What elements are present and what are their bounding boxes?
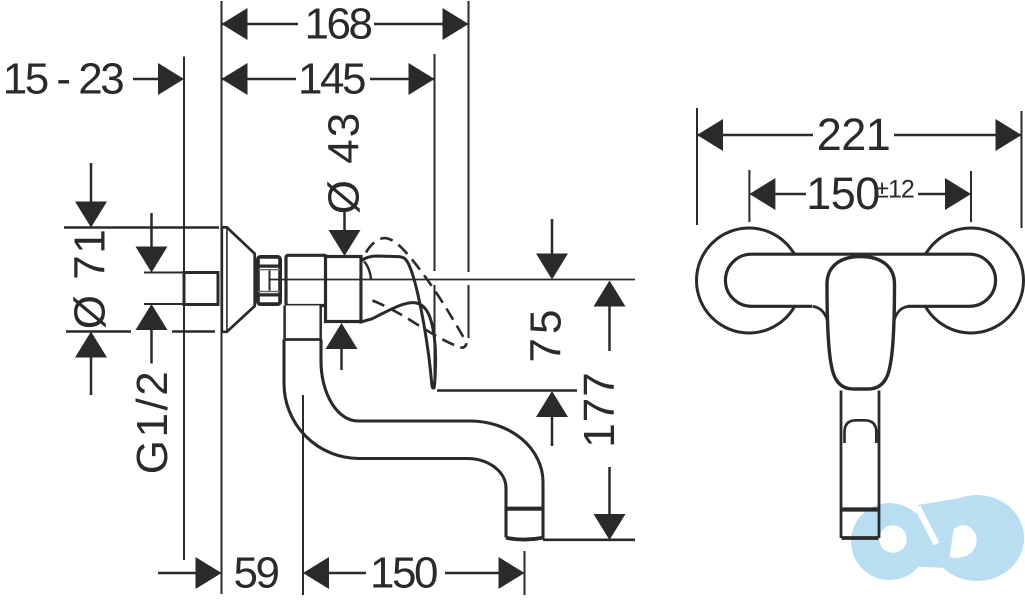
lever handle dashed upper [366,238,466,348]
spout S-tube inner edge [321,340,543,539]
handle pill front [827,257,895,390]
dim 221 line [697,134,813,137]
svg-text:Ø 71: Ø 71 [66,228,115,329]
escutcheon cone [222,227,255,331]
svg-text:221: 221 [817,109,891,160]
lever neck inner arc [364,262,371,280]
dim 221 arrows [697,119,1022,151]
svg-text:145: 145 [298,55,365,104]
svg-text:177: 177 [575,371,624,447]
spout bend arch front [845,420,877,443]
spout tube front right edge [878,391,881,539]
dim 168 arrows [222,8,469,40]
dim 150 bottom line [329,572,366,575]
svg-text:168: 168 [305,0,372,49]
union nut [258,257,280,304]
watermark right loop [930,495,1024,581]
watermark gap cut [915,506,940,546]
dim 150 bottom arrows [303,557,525,589]
G1/2 bottom arrow [136,304,168,330]
wall line outer [221,1,223,594]
lever handle dashed lower [373,301,461,348]
escutcheon base plate edge [226,227,228,331]
dim O43 top arrow [343,211,346,231]
spout bottom face [506,538,543,540]
wall line inner [183,57,185,561]
escutcheon circle right [919,228,1024,333]
spout aerator line [505,507,545,511]
dim 150+-12 line [775,193,806,196]
supply stub square G1/2 [184,273,218,305]
svg-text:15 - 23: 15 - 23 [3,55,124,104]
svg-text:59: 59 [234,549,279,598]
dim O71 top arrow [90,163,93,203]
svg-text:G1/2: G1/2 [128,369,177,474]
escutcheon circle left [697,228,802,333]
lever handle solid [361,256,436,388]
nut ridge bottom [257,293,282,296]
dim 145 arrows [222,63,435,95]
ext line spout axis [302,395,304,595]
lever tip reference line [437,389,577,392]
dim O43 bottom arrow [326,323,358,349]
svg-text:±12: ±12 [875,176,914,204]
dim 150+-12 ext left [748,170,750,222]
dim O71 bottom line [66,330,131,333]
dim 145 line [222,78,435,81]
ext line 145 [434,54,436,271]
svg-text:75: 75 [522,306,571,363]
svg-text:150: 150 [370,549,437,598]
nut ridge top thin [258,269,280,271]
dim 75 bottom arrow [536,391,568,417]
ext line 168 [468,1,470,272]
watermark diagonal band [902,499,958,569]
dim 59 arrow [196,557,222,589]
dim 150+-12 ext right [970,171,972,222]
bar-handle fillet right [894,306,909,321]
nut ridge top [257,265,282,268]
dim 150+-12 arrows [749,178,971,210]
G1/2 top arrow [150,213,153,247]
cartridge block [326,257,362,322]
body bar outline [725,254,995,306]
svg-text:150: 150 [806,168,880,219]
body bar fill [726,254,996,306]
watermark logo bottom right [851,495,1024,581]
spout bottom reference line [543,538,635,541]
dim O71 bottom arrow [75,332,107,358]
dim 177 bottom arrow [608,467,611,515]
ext line outlet axis [524,551,526,595]
dim 221 ext left [696,108,698,225]
aerator line front [840,507,880,511]
dim 59 tail [158,572,196,575]
centerline [270,279,635,281]
spout S-tube outer edge [284,340,506,538]
tube bottom front [842,536,879,540]
ext line 145 lower segment to lever tip [434,285,436,389]
dim 168 line [222,23,469,26]
dim 75 top arrow [551,219,554,256]
faucet body [286,255,327,305]
bar-handle fillet left [813,306,828,321]
watermark left ring [851,503,928,580]
dim O71 top line [64,226,219,229]
dim 15-23 [133,78,159,81]
svg-text:Ø 43: Ø 43 [320,111,369,214]
dim 221 ext right [1021,111,1023,228]
nut ridge bottom thin [258,291,280,293]
G1/2 ext lines [144,272,184,274]
dim 177 top arrow [594,281,626,307]
spout upper joint section [285,306,321,340]
nut hex flat line [269,271,271,291]
spout tube front left edge [840,391,843,539]
spout joint ring line [285,338,321,341]
